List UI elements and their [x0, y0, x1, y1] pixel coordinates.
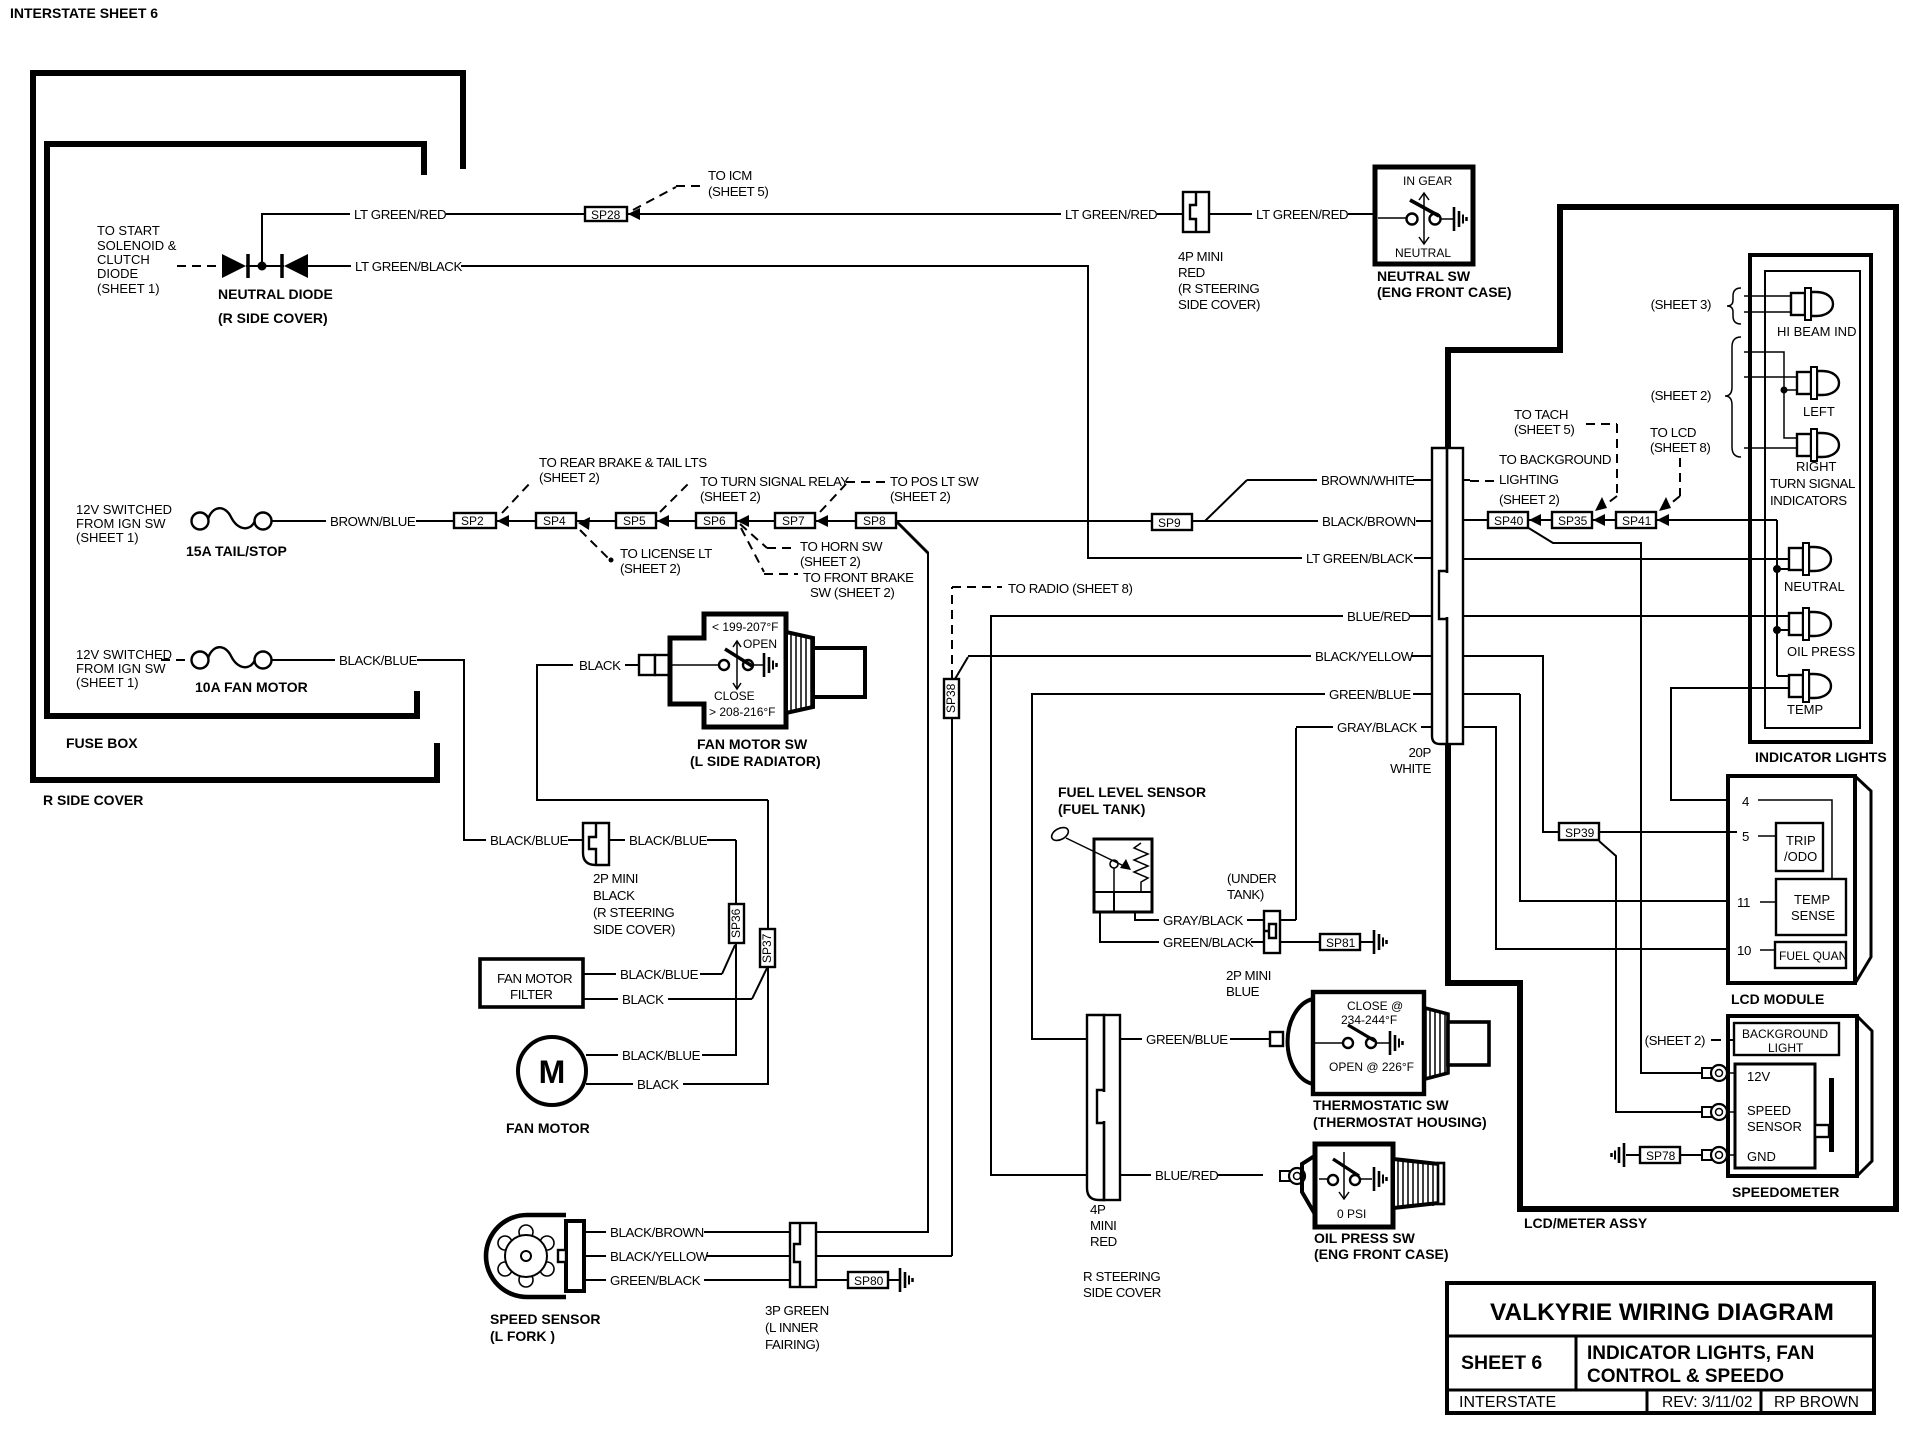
- wire BROWN/BLUE: [271, 512, 454, 529]
- connector 2P mini black: [583, 823, 675, 937]
- svg-text:SPEEDOMETER: SPEEDOMETER: [1732, 1184, 1839, 1200]
- svg-text:RED: RED: [1090, 1234, 1117, 1249]
- dashed to license lt: [580, 530, 712, 576]
- svg-text:(SHEET 3): (SHEET 3): [1651, 297, 1711, 312]
- svg-text:LT GREEN/BLACK: LT GREEN/BLACK: [355, 259, 462, 274]
- wire gray/black riser: [1295, 728, 1297, 920]
- thermostatic sw: [1270, 992, 1489, 1130]
- svg-text:0 PSI: 0 PSI: [1337, 1207, 1366, 1221]
- svg-text:> 208-216°F: > 208-216°F: [709, 705, 776, 719]
- wire fan switch black: [537, 656, 768, 800]
- svg-text:FUEL LEVEL SENSOR: FUEL LEVEL SENSOR: [1058, 784, 1206, 800]
- svg-text:SP28: SP28: [591, 208, 621, 222]
- speedometer inner box: [1735, 1064, 1834, 1168]
- svg-text:LT GREEN/BLACK: LT GREEN/BLACK: [1306, 551, 1413, 566]
- wire SP40 branch to speedometer: [1527, 527, 1702, 1073]
- svg-text:SP78: SP78: [1646, 1149, 1676, 1163]
- fan switch inline connector: [639, 655, 669, 675]
- svg-text:RED: RED: [1178, 265, 1205, 280]
- svg-text:TEMP: TEMP: [1794, 892, 1830, 907]
- svg-text:BROWN/WHITE: BROWN/WHITE: [1321, 473, 1415, 488]
- svg-text:(L INNER: (L INNER: [765, 1320, 818, 1335]
- wire gray/black row: [1296, 718, 1737, 949]
- splice SP81: [1280, 930, 1387, 954]
- svg-text:TO ICM: TO ICM: [708, 168, 752, 183]
- svg-text:CLUTCH: CLUTCH: [97, 252, 150, 267]
- svg-text:< 199-207°F: < 199-207°F: [712, 620, 779, 634]
- wire green/blue right side: [1325, 685, 1737, 901]
- indicator lights outer box: [1750, 255, 1871, 742]
- svg-text:TO LCD: TO LCD: [1650, 425, 1696, 440]
- svg-text:NEUTRAL DIODE: NEUTRAL DIODE: [218, 286, 333, 302]
- dashed to ICM: [633, 168, 768, 210]
- fuel level sensor: [1049, 784, 1206, 912]
- svg-text:RIGHT: RIGHT: [1796, 459, 1837, 474]
- splice SP36: [729, 840, 744, 943]
- svg-text:LCD MODULE: LCD MODULE: [1731, 991, 1824, 1007]
- wire speed sensor green/black: [584, 1271, 848, 1288]
- svg-text:LT GREEN/RED: LT GREEN/RED: [1065, 207, 1157, 222]
- svg-text:SP40: SP40: [1494, 514, 1524, 528]
- R SIDE COVER outline: [33, 73, 463, 808]
- pin 11 temp sense: [1737, 879, 1846, 935]
- wire BLACK/BLUE from fuse: [271, 651, 583, 848]
- wire motor black: [586, 967, 768, 1092]
- svg-text:BLUE/RED: BLUE/RED: [1347, 609, 1410, 624]
- wire blue/red: [991, 616, 1432, 1183]
- svg-text:BLACK/BROWN: BLACK/BROWN: [1322, 514, 1416, 529]
- svg-text:(SHEET 2): (SHEET 2): [800, 554, 860, 569]
- svg-text:CLOSE: CLOSE: [714, 689, 755, 703]
- svg-text:IN GEAR: IN GEAR: [1403, 174, 1453, 188]
- speedometer box: [1728, 1016, 1872, 1200]
- svg-text:TRIP: TRIP: [1786, 833, 1816, 848]
- svg-text:SP5: SP5: [623, 514, 646, 528]
- svg-text:GREEN/BLACK: GREEN/BLACK: [1163, 935, 1254, 950]
- dashed to front brake sw: [741, 528, 914, 600]
- svg-text:SENSOR: SENSOR: [1747, 1119, 1802, 1134]
- background light box: [1645, 1023, 1839, 1055]
- dashed to radio: [952, 581, 1133, 679]
- svg-text:CLOSE @: CLOSE @: [1347, 999, 1403, 1013]
- svg-text:(SHEET 2): (SHEET 2): [700, 489, 760, 504]
- svg-text:2P MINI: 2P MINI: [1226, 968, 1271, 983]
- bulb neutral: [1784, 543, 1845, 594]
- connector 2P mini blue: [1226, 911, 1280, 999]
- splice SP4: [536, 513, 590, 530]
- svg-text:(SHEET 1): (SHEET 1): [76, 530, 139, 545]
- label under tank: [1227, 871, 1276, 902]
- svg-text:BLACK: BLACK: [593, 888, 635, 903]
- svg-text:M: M: [539, 1054, 566, 1090]
- svg-text:(R STEERING: (R STEERING: [1178, 281, 1259, 296]
- svg-text:5: 5: [1742, 829, 1749, 844]
- svg-text:SENSE: SENSE: [1791, 908, 1835, 923]
- wire speed sensor black/brown: [584, 1223, 790, 1240]
- svg-text:THERMOSTATIC SW: THERMOSTATIC SW: [1313, 1097, 1449, 1113]
- dashed to horn sw: [740, 524, 883, 569]
- wires hi beam: [1744, 296, 1791, 312]
- splice SP7: [775, 513, 828, 528]
- svg-text:TO BACKGROUND: TO BACKGROUND: [1499, 452, 1611, 467]
- connector 4P mini red upper: [1178, 192, 1260, 312]
- LCD module box: [1728, 776, 1871, 1007]
- svg-text:10: 10: [1737, 943, 1751, 958]
- svg-text:SP36: SP36: [729, 908, 743, 938]
- svg-text:INDICATOR LIGHTS: INDICATOR LIGHTS: [1755, 749, 1887, 765]
- svg-text:BLACK/YELLOW: BLACK/YELLOW: [1315, 649, 1414, 664]
- svg-text:3P GREEN: 3P GREEN: [765, 1303, 829, 1318]
- splice SP9: [1152, 514, 1192, 530]
- dashed stub to 10A fuse: [161, 659, 190, 661]
- svg-text:FUSE BOX: FUSE BOX: [66, 735, 138, 751]
- svg-text:(SHEET 1): (SHEET 1): [76, 675, 139, 690]
- svg-text:SP2: SP2: [461, 514, 484, 528]
- svg-text:OIL PRESS: OIL PRESS: [1787, 644, 1855, 659]
- svg-text:INDICATORS: INDICATORS: [1770, 493, 1847, 508]
- wire motor black/blue: [586, 943, 736, 1063]
- wire blue/red stub: [1343, 615, 1432, 617]
- brace sheet3: [1651, 288, 1741, 324]
- svg-text:TO FRONT BRAKE: TO FRONT BRAKE: [803, 570, 914, 585]
- fuse 10A FAN MOTOR: [192, 647, 308, 695]
- wire LT GREEN/BLACK: [308, 257, 1789, 566]
- svg-text:LT GREEN/RED: LT GREEN/RED: [354, 207, 446, 222]
- svg-text:SP7: SP7: [782, 514, 805, 528]
- splice SP5: [616, 513, 669, 528]
- svg-text:BLACK/BLUE: BLACK/BLUE: [629, 833, 708, 848]
- svg-text:BLACK: BLACK: [637, 1077, 679, 1092]
- svg-text:TO TURN SIGNAL RELAY: TO TURN SIGNAL RELAY: [700, 474, 849, 489]
- fan motor sw thread: [786, 632, 865, 713]
- wire green/blue: [1032, 694, 1432, 1047]
- svg-text:LCD/METER ASSY: LCD/METER ASSY: [1524, 1215, 1648, 1231]
- svg-text:LIGHTING: LIGHTING: [1499, 472, 1559, 487]
- wire green/black fuel: [1100, 912, 1264, 950]
- svg-text:TURN SIGNAL: TURN SIGNAL: [1770, 476, 1855, 491]
- svg-text:SP6: SP6: [703, 514, 726, 528]
- ring terminal 12V: [1702, 1065, 1735, 1081]
- svg-text:GRAY/BLACK: GRAY/BLACK: [1337, 720, 1418, 735]
- svg-text:FUEL QUAN: FUEL QUAN: [1779, 949, 1847, 963]
- svg-text:GND: GND: [1747, 1149, 1776, 1164]
- svg-text:4: 4: [1742, 794, 1749, 809]
- svg-text:(FUEL TANK): (FUEL TANK): [1058, 801, 1145, 817]
- indicator lights inner box: [1765, 271, 1860, 728]
- svg-text:4P: 4P: [1090, 1202, 1106, 1217]
- svg-text:SP37: SP37: [760, 933, 774, 963]
- svg-text:WHITE: WHITE: [1390, 761, 1431, 776]
- bulb hi beam: [1777, 288, 1856, 339]
- svg-text:FAN MOTOR: FAN MOTOR: [506, 1120, 590, 1136]
- svg-text:BROWN/BLUE: BROWN/BLUE: [330, 514, 416, 529]
- fan motor: [506, 1037, 590, 1136]
- svg-text:(SHEET 5): (SHEET 5): [1514, 422, 1574, 437]
- svg-text:TO LICENSE LT: TO LICENSE LT: [620, 546, 712, 561]
- svg-text:20P: 20P: [1409, 745, 1432, 760]
- ring terminal gnd: [1702, 1147, 1735, 1163]
- svg-text:TO RADIO (SHEET 8): TO RADIO (SHEET 8): [1008, 581, 1133, 596]
- svg-text:TO TACH: TO TACH: [1514, 407, 1568, 422]
- connector 3P green: [765, 1223, 829, 1352]
- svg-text:11: 11: [1737, 895, 1750, 910]
- svg-text:RP BROWN: RP BROWN: [1774, 1394, 1859, 1411]
- wires turn signal: [1744, 352, 1797, 448]
- label 12V switched (tail/stop): [76, 502, 172, 545]
- svg-text:(SHEET 2): (SHEET 2): [890, 489, 950, 504]
- svg-text:SP41: SP41: [1622, 514, 1652, 528]
- svg-text:NEUTRAL: NEUTRAL: [1784, 579, 1845, 594]
- svg-text:SIDE COVER): SIDE COVER): [593, 922, 675, 937]
- pin 10 fuel quan: [1737, 942, 1847, 968]
- svg-text:(SHEET 1): (SHEET 1): [97, 281, 160, 296]
- svg-text:(L FORK ): (L FORK ): [490, 1328, 555, 1344]
- svg-text:VALKYRIE WIRING DIAGRAM: VALKYRIE WIRING DIAGRAM: [1490, 1299, 1834, 1326]
- svg-text:OPEN: OPEN: [743, 637, 777, 651]
- svg-text:12V SWITCHED: 12V SWITCHED: [76, 647, 172, 662]
- svg-text:GREEN/BLACK: GREEN/BLACK: [610, 1273, 701, 1288]
- svg-text:SP39: SP39: [1565, 826, 1595, 840]
- svg-text:R SIDE COVER: R SIDE COVER: [43, 792, 143, 808]
- dashed to rear brake: [502, 455, 707, 513]
- svg-text:(ENG FRONT CASE): (ENG FRONT CASE): [1377, 284, 1512, 300]
- splice SP39: [1559, 823, 1737, 1112]
- speed sensor: [486, 1215, 600, 1344]
- dashed to lcd: [1650, 425, 1710, 511]
- svg-text:LT GREEN/RED: LT GREEN/RED: [1256, 207, 1348, 222]
- splice SP40: [1463, 512, 1528, 528]
- svg-text:BLACK: BLACK: [579, 658, 621, 673]
- svg-text:(THERMOSTAT HOUSING): (THERMOSTAT HOUSING): [1313, 1114, 1487, 1130]
- svg-text:SIDE COVER): SIDE COVER): [1178, 297, 1260, 312]
- svg-text:SP4: SP4: [543, 514, 566, 528]
- svg-text:SIDE COVER: SIDE COVER: [1083, 1285, 1161, 1300]
- svg-text:2P MINI: 2P MINI: [593, 871, 638, 886]
- svg-text:(SHEET 2): (SHEET 2): [539, 470, 599, 485]
- svg-text:LIGHT: LIGHT: [1768, 1041, 1804, 1055]
- svg-text:FAN MOTOR SW: FAN MOTOR SW: [697, 736, 808, 752]
- bulb oil press: [1787, 608, 1855, 659]
- wire brown/white diagonal from SP9: [1205, 480, 1247, 521]
- pin 5 trip/odo: [1742, 823, 1823, 871]
- dashed to pos lt sw: [820, 474, 979, 512]
- svg-text:GREEN/BLUE: GREEN/BLUE: [1146, 1032, 1228, 1047]
- label 12V switched (fan motor): [76, 647, 172, 690]
- dashed to tach: [1514, 407, 1617, 511]
- svg-text:10A FAN MOTOR: 10A FAN MOTOR: [195, 679, 308, 695]
- wire speed sensor black/yellow: [584, 1247, 952, 1264]
- svg-text:FAIRING): FAIRING): [765, 1337, 819, 1352]
- svg-text:SHEET 6: SHEET 6: [1461, 1352, 1542, 1374]
- svg-text:BLACK/BLUE: BLACK/BLUE: [339, 653, 418, 668]
- bulb left: [1797, 367, 1839, 419]
- oil press sw: [1280, 1144, 1449, 1262]
- svg-text:(SHEET 2): (SHEET 2): [1651, 388, 1711, 403]
- fan motor filter: [480, 959, 583, 1007]
- svg-text:(SHEET 2): (SHEET 2): [1499, 492, 1559, 507]
- splice SP41: [1592, 512, 1656, 528]
- svg-text:TEMP: TEMP: [1787, 702, 1823, 717]
- title block: [1447, 1283, 1874, 1413]
- svg-text:DIODE: DIODE: [97, 266, 139, 281]
- svg-text:OPEN @ 226°F: OPEN @ 226°F: [1329, 1060, 1414, 1074]
- label to start solenoid: [97, 223, 177, 296]
- neutral diode: [218, 254, 333, 326]
- bulb right: [1770, 429, 1855, 508]
- dashed to turn signal relay: [660, 474, 849, 512]
- svg-text:(UNDER: (UNDER: [1227, 871, 1276, 886]
- wire gray/black fuel: [1135, 911, 1264, 928]
- svg-text:/ODO: /ODO: [1784, 849, 1817, 864]
- svg-text:4P MINI: 4P MINI: [1178, 249, 1223, 264]
- brace sheet2: [1651, 337, 1741, 457]
- svg-text:NEUTRAL SW: NEUTRAL SW: [1377, 268, 1471, 284]
- wire temp to pin4: [1671, 688, 1789, 800]
- svg-text:12V: 12V: [1747, 1069, 1770, 1084]
- splice SP78: [1612, 1143, 1703, 1167]
- svg-text:(SHEET 2): (SHEET 2): [620, 561, 680, 576]
- LCD meter assy thick border: [1448, 207, 1896, 1231]
- wire filter black/blue: [583, 945, 735, 982]
- svg-text:INTERSTATE: INTERSTATE: [1459, 1394, 1556, 1411]
- svg-text:INTERSTATE SHEET 6: INTERSTATE SHEET 6: [10, 5, 158, 21]
- svg-text:SOLENOID &: SOLENOID &: [97, 238, 177, 253]
- svg-text:FILTER: FILTER: [510, 987, 552, 1002]
- splice SP6: [696, 513, 749, 528]
- svg-text:GRAY/BLACK: GRAY/BLACK: [1163, 913, 1244, 928]
- svg-text:(ENG FRONT CASE): (ENG FRONT CASE): [1314, 1246, 1449, 1262]
- svg-text:15A TAIL/STOP: 15A TAIL/STOP: [186, 543, 287, 559]
- splice SP2: [454, 513, 509, 528]
- svg-text:TO REAR BRAKE & TAIL LTS: TO REAR BRAKE & TAIL LTS: [539, 455, 707, 470]
- svg-text:SP81: SP81: [1326, 936, 1356, 950]
- wire black/yellow row: [968, 647, 1559, 832]
- wire filter black: [583, 968, 767, 1007]
- svg-text:(SHEET 8): (SHEET 8): [1650, 440, 1710, 455]
- svg-text:INDICATOR LIGHTS, FAN: INDICATOR LIGHTS, FAN: [1587, 1343, 1814, 1364]
- svg-text:SW (SHEET 2): SW (SHEET 2): [810, 585, 894, 600]
- connector 20P white: [1390, 448, 1463, 776]
- wire black/brown row: [1247, 512, 1432, 529]
- wire SP41 to bulbs: [1656, 514, 1789, 676]
- neutral sw: [1375, 167, 1512, 300]
- splice SP38: [944, 679, 959, 718]
- wire tail/stop splice run: [496, 520, 1247, 522]
- svg-text:SP8: SP8: [863, 514, 886, 528]
- svg-text:SP35: SP35: [1558, 514, 1588, 528]
- svg-text:12V SWITCHED: 12V SWITCHED: [76, 502, 172, 517]
- splice SP80: [848, 1268, 913, 1292]
- svg-text:SP9: SP9: [1158, 516, 1181, 530]
- fuse 15A TAIL/STOP: [186, 508, 287, 559]
- svg-text:BLACK: BLACK: [622, 992, 664, 1007]
- svg-text:TO HORN SW: TO HORN SW: [800, 539, 883, 554]
- svg-text:TANK): TANK): [1227, 887, 1264, 902]
- bulb temp: [1787, 670, 1831, 717]
- svg-text:BLACK/BROWN: BLACK/BROWN: [610, 1225, 704, 1240]
- fuse box outline: [47, 144, 424, 751]
- svg-text:REV: 3/11/02: REV: 3/11/02: [1662, 1394, 1752, 1411]
- wire brown/white row: [1247, 471, 1470, 488]
- wire LT GREEN/RED: [262, 205, 1376, 266]
- svg-text:(SHEET 2): (SHEET 2): [1645, 1033, 1705, 1048]
- splice SP37: [760, 800, 775, 967]
- svg-text:BACKGROUND: BACKGROUND: [1742, 1027, 1828, 1041]
- svg-text:NEUTRAL: NEUTRAL: [1395, 246, 1451, 260]
- svg-text:OIL PRESS SW: OIL PRESS SW: [1314, 1230, 1416, 1246]
- dashed wire to diode: [177, 265, 220, 267]
- ring terminal speed: [1702, 1104, 1735, 1120]
- svg-text:(R SIDE COVER): (R SIDE COVER): [218, 310, 328, 326]
- svg-text:MINI: MINI: [1090, 1218, 1116, 1233]
- svg-text:SPEED SENSOR: SPEED SENSOR: [490, 1311, 600, 1327]
- svg-text:LEFT: LEFT: [1803, 404, 1835, 419]
- svg-text:(R STEERING: (R STEERING: [593, 905, 674, 920]
- wire 2P black row: [609, 831, 736, 848]
- svg-text:(SHEET 5): (SHEET 5): [708, 184, 768, 199]
- svg-text:CONTROL & SPEEDO: CONTROL & SPEEDO: [1587, 1366, 1784, 1387]
- svg-text:FAN MOTOR: FAN MOTOR: [497, 971, 572, 986]
- svg-text:SP38: SP38: [944, 683, 958, 713]
- svg-text:BLUE: BLUE: [1226, 984, 1260, 999]
- svg-text:SPEED: SPEED: [1747, 1103, 1791, 1118]
- svg-text:TO START: TO START: [97, 223, 160, 238]
- svg-text:R STEERING: R STEERING: [1083, 1269, 1160, 1284]
- svg-text:FROM IGN SW: FROM IGN SW: [76, 661, 166, 676]
- splice SP8: [856, 513, 896, 528]
- svg-text:BLACK/BLUE: BLACK/BLUE: [490, 833, 569, 848]
- dashed to background lighting: [1470, 452, 1611, 507]
- wire black/yellow SP38 riser: [952, 657, 968, 1256]
- splice SP28: [585, 207, 640, 222]
- svg-text:BLACK/BLUE: BLACK/BLUE: [622, 1048, 701, 1063]
- wire black/brown riser from SP8: [816, 522, 928, 1232]
- connector 4P mini red lower: [1083, 1015, 1161, 1300]
- svg-text:BLACK/BLUE: BLACK/BLUE: [620, 967, 699, 982]
- pin 4: [1742, 794, 1832, 879]
- splice SP35: [1528, 512, 1592, 528]
- svg-text:HI BEAM IND: HI BEAM IND: [1777, 324, 1856, 339]
- svg-text:BLUE/RED: BLUE/RED: [1155, 1168, 1218, 1183]
- svg-text:SP80: SP80: [854, 1274, 884, 1288]
- svg-text:(L SIDE RADIATOR): (L SIDE RADIATOR): [690, 753, 821, 769]
- svg-text:TO POS LT SW: TO POS LT SW: [890, 474, 979, 489]
- svg-text:BLACK/YELLOW: BLACK/YELLOW: [610, 1249, 709, 1264]
- fan motor sw body: [670, 614, 821, 769]
- svg-text:FROM IGN SW: FROM IGN SW: [76, 516, 166, 531]
- svg-text:GREEN/BLUE: GREEN/BLUE: [1329, 687, 1411, 702]
